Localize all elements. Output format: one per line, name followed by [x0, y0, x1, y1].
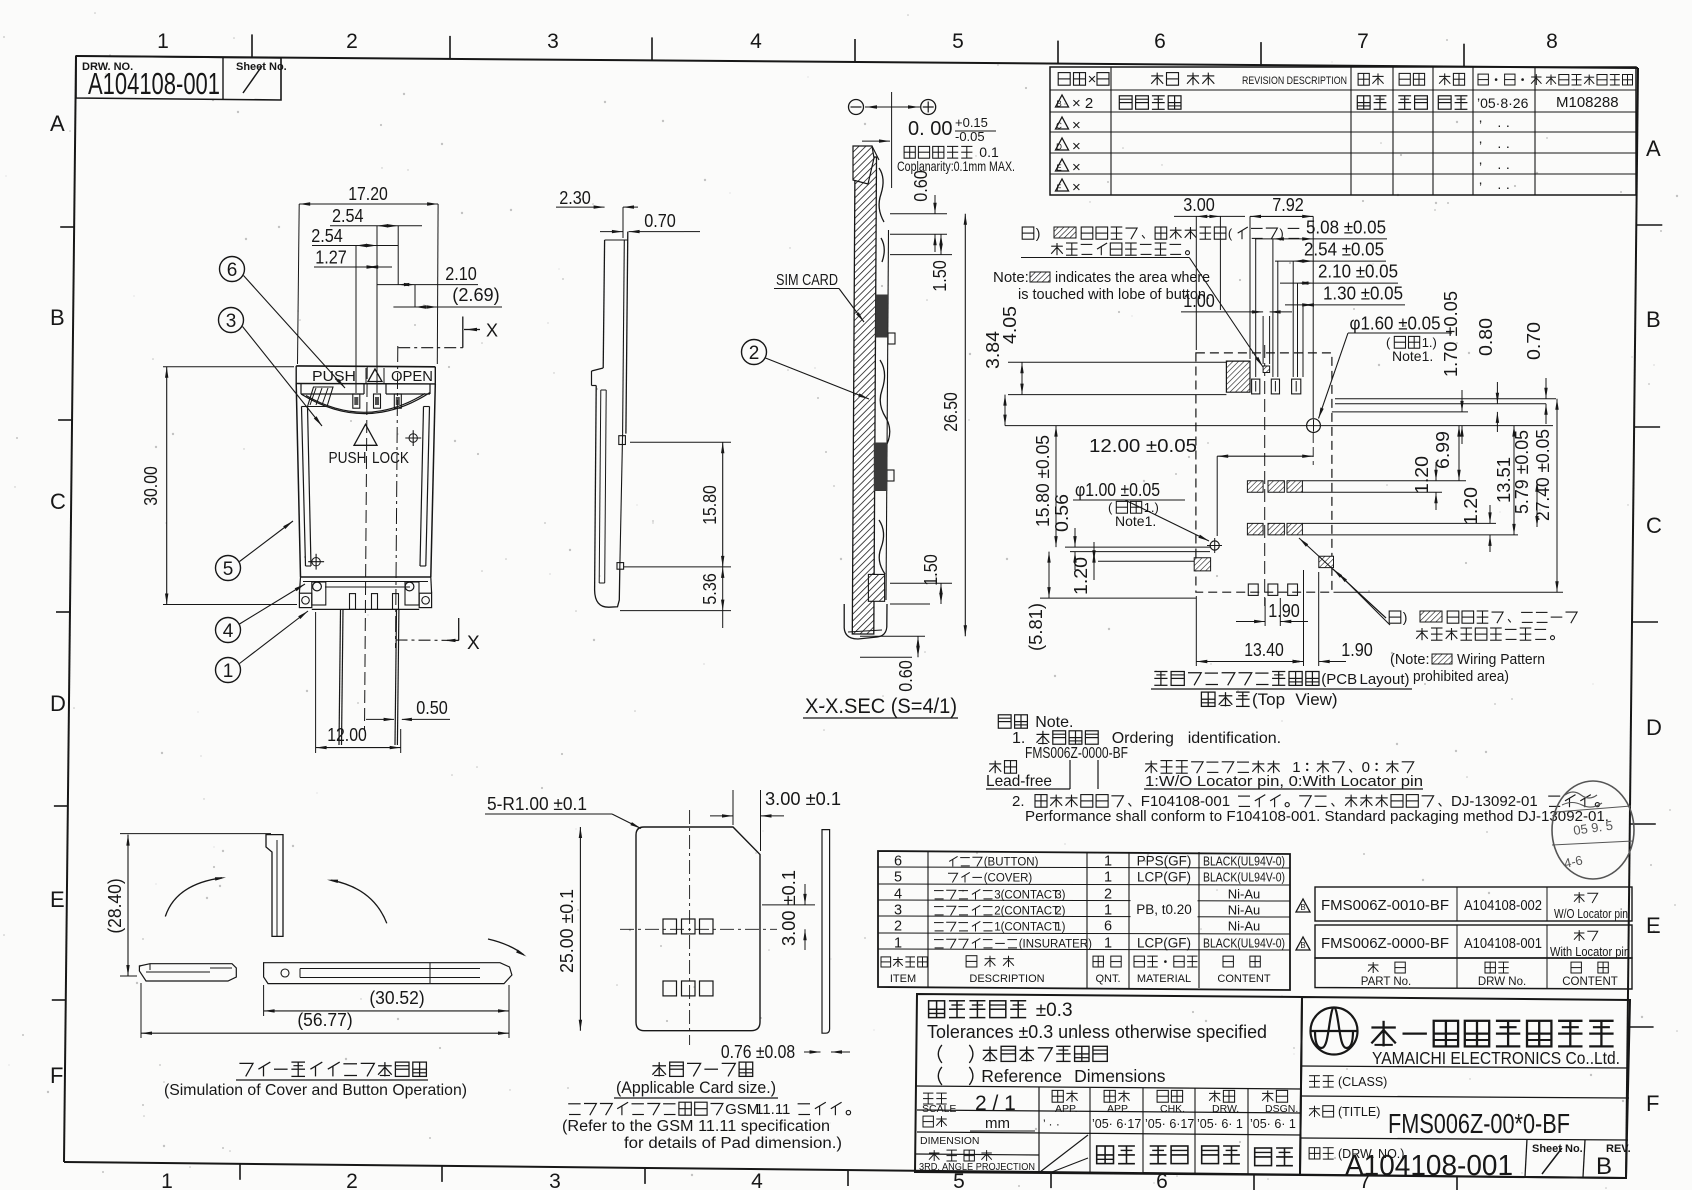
coplanarity note japanese: [904, 146, 915, 158]
svg-text:(TITLE): (TITLE): [1338, 1105, 1380, 1119]
parts row item 2: [894, 919, 1260, 935]
svg-text:5: 5: [952, 30, 964, 53]
pcb extension lines vertical: [1196, 216, 1313, 536]
prohibit note leaders: [1299, 538, 1390, 625]
dimension 2.54 pcb: [1275, 240, 1386, 263]
svg-text:2.54 ±0.05: 2.54 ±0.05: [1304, 240, 1384, 260]
dimension 0.80: [1476, 318, 1499, 432]
svg-text:2: 2: [749, 343, 760, 364]
dimension 5.36: [620, 567, 731, 628]
svg-text:A104108-001: A104108-001: [1345, 1150, 1513, 1182]
class row label: [1309, 1075, 1387, 1089]
svg-text:6: 6: [1104, 919, 1112, 935]
svg-text:· ·: · ·: [1497, 117, 1510, 133]
svg-text:’: ’: [1479, 138, 1482, 154]
svg-text:±0.3: ±0.3: [1036, 1000, 1073, 1021]
svg-text:F: F: [1646, 1091, 1659, 1116]
svg-text:2: 2: [1104, 887, 1112, 903]
svg-text:1.20: 1.20: [1412, 456, 1432, 494]
svg-text:2: 2: [346, 30, 358, 53]
svg-text:LCP(GF): LCP(GF): [1137, 936, 1191, 951]
dimension 0.76: [721, 1041, 850, 1062]
dimension 1.20 left: [1071, 542, 1096, 595]
svg-text:F: F: [50, 1063, 63, 1088]
pcb view subtitle top view: [1201, 692, 1215, 706]
svg-text:CHK.: CHK.: [1160, 1103, 1185, 1115]
svg-text:mm: mm: [985, 1115, 1010, 1132]
drawing number row: [1309, 1139, 1631, 1182]
approval dates: [1043, 1117, 1296, 1131]
svg-text:26.50: 26.50: [941, 392, 961, 432]
svg-text:0.60: 0.60: [911, 170, 931, 202]
svg-text:for details of Pad dimension.): for details of Pad dimension.): [624, 1135, 842, 1152]
hatch note top japanese: [1021, 225, 1299, 367]
svg-text:· ·: · ·: [1497, 179, 1510, 195]
dimension 2.54 second: [311, 226, 398, 393]
svg-text:(5.81): (5.81): [1026, 603, 1046, 651]
front view top bar PUSH OPEN: [296, 366, 435, 385]
dimension 1.27: [314, 248, 392, 269]
svg-text:C: C: [1646, 513, 1662, 538]
dimension 7.92 pcb: [1250, 195, 1313, 218]
dimension 0.60 top: [890, 170, 947, 252]
svg-text:1.90: 1.90: [1341, 640, 1373, 660]
drawing number box: [76, 56, 287, 101]
svg-text:0. 00: 0. 00: [908, 118, 952, 140]
simulation title japanese: [236, 1062, 428, 1080]
note heading: [998, 714, 1073, 731]
front view side rails: [296, 384, 435, 578]
svg-text:6: 6: [227, 260, 238, 281]
svg-text:DSGN.: DSGN.: [1265, 1103, 1298, 1115]
prohibit note japanese: [1389, 609, 1577, 640]
svg-text:Reference: Reference: [981, 1066, 1062, 1086]
svg-text:15.80 ±0.05: 15.80 ±0.05: [1033, 435, 1053, 527]
svg-text:(Note:: (Note:: [1390, 652, 1430, 668]
parts row item 5: [894, 870, 1285, 886]
svg-text:1.90: 1.90: [1268, 601, 1300, 621]
label phi 1.00: [1073, 480, 1209, 541]
svg-text:(: (: [1108, 500, 1113, 515]
svg-text:(BUTTON): (BUTTON): [984, 857, 1039, 869]
svg-text:REVISION DESCRIPTION: REVISION DESCRIPTION: [1242, 75, 1347, 87]
svg-text:B: B: [1646, 307, 1661, 332]
svg-text:): ): [1279, 226, 1283, 241]
dimension 12.00 legs: [316, 612, 401, 753]
dimension 1.70: [1441, 291, 1464, 444]
svg-text:Ni-Au: Ni-Au: [1228, 887, 1261, 902]
title block outline: [1300, 997, 1630, 1178]
svg-text:Note1.: Note1.: [1392, 348, 1433, 364]
company name english: [1372, 1048, 1620, 1068]
svg-text:3.00: 3.00: [1183, 195, 1215, 215]
pcb centerline horizontal through mount hole: [1005, 425, 1553, 427]
svg-text:indicates the area where: indicates the area where: [1055, 269, 1210, 286]
svg-text:FMS006Z-00*0-BF: FMS006Z-00*0-BF: [1388, 1108, 1570, 1139]
svg-text:X: X: [486, 321, 498, 341]
svg-text:): ): [1403, 609, 1408, 625]
material merged cell: [1131, 886, 1198, 932]
svg-text:1.: 1.: [1012, 730, 1025, 747]
prohibit note english: [1390, 652, 1545, 685]
svg-text:1: 1: [223, 661, 234, 682]
dimension 2.10 pcb: [1280, 262, 1398, 285]
card side view thin bar: [822, 830, 830, 1034]
svg-text:X-X.SEC (S=4/1): X-X.SEC (S=4/1): [805, 695, 957, 718]
svg-text:W/O Locator pin: W/O Locator pin: [1554, 907, 1628, 921]
pcb right extension lines: [1302, 399, 1563, 592]
pcb prohibited pads row 2: [1247, 523, 1302, 535]
svg-text:(Simulation of Cover and Butto: (Simulation of Cover and Button Operatio…: [164, 1082, 467, 1099]
svg-text:8: 8: [1546, 30, 1558, 53]
svg-text:D: D: [1646, 715, 1662, 740]
svg-text:A104108-001: A104108-001: [88, 66, 220, 101]
svg-text:(: (: [1386, 335, 1391, 350]
svg-text:With Locator pin: With Locator pin: [1550, 945, 1630, 959]
svg-text:A: A: [50, 111, 65, 136]
svg-text:(2.69): (2.69): [452, 285, 499, 305]
pcb bottom pads: [1248, 584, 1297, 595]
svg-text:MATERIAL: MATERIAL: [1137, 973, 1191, 985]
front view center dashed line: [365, 366, 368, 731]
dimension 0.50 leg: [366, 698, 450, 721]
svg-text:’05· 6·17: ’05· 6·17: [1092, 1117, 1141, 1131]
svg-text:0.60: 0.60: [896, 660, 916, 692]
dimension 1.30 pcb: [1285, 283, 1405, 306]
svg-text:(28.40): (28.40): [105, 878, 125, 933]
parts table header: [881, 956, 1271, 985]
dimension 1.90 bottom: [1236, 598, 1308, 626]
dimension 6.99: [1433, 426, 1461, 481]
svg-text:2: 2: [894, 919, 902, 935]
dimension 5.08: [1255, 217, 1387, 240]
Yamaichi logo: [1311, 1008, 1358, 1055]
svg-text:5.08 ±0.05: 5.08 ±0.05: [1306, 217, 1386, 237]
side view lower body: [595, 386, 626, 608]
card title japanese: [616, 1062, 776, 1097]
front view datum target top-right: [405, 430, 421, 446]
svg-text:LOCK: LOCK: [372, 450, 409, 467]
svg-text:×: ×: [1072, 117, 1081, 134]
zone ticks bottom: [240, 1164, 1457, 1192]
svg-text:FMS006Z-0000-BF: FMS006Z-0000-BF: [1321, 936, 1449, 952]
svg-text:SCALE: SCALE: [922, 1103, 956, 1115]
svg-text:(Top: (Top: [1252, 690, 1285, 709]
svg-text:Layout): Layout): [1360, 671, 1410, 688]
svg-text:Ni-Au: Ni-Au: [1228, 903, 1261, 918]
svg-text:3.84: 3.84: [983, 331, 1003, 369]
svg-text:5.79 ±0.05: 5.79 ±0.05: [1512, 430, 1532, 514]
svg-text:(Applicable Card size.): (Applicable Card size.): [616, 1078, 776, 1097]
svg-text:0.70: 0.70: [644, 211, 676, 231]
svg-text:27.40 ±0.05: 27.40 ±0.05: [1533, 429, 1553, 521]
dimension 0.56: [1052, 494, 1210, 570]
svg-text:DESCRIPTION: DESCRIPTION: [969, 973, 1044, 985]
svg-text:0.76 ±0.08: 0.76 ±0.08: [721, 1041, 795, 1062]
svg-text:PART No.: PART No.: [1361, 976, 1412, 988]
section insulator dark blocks: [874, 295, 888, 492]
title row: [1309, 1105, 1570, 1139]
svg-text:ITEM: ITEM: [890, 973, 916, 985]
front view contact pins bottom: [350, 594, 399, 610]
svg-text:SIM CARD: SIM CARD: [776, 272, 838, 289]
pcb small hatched pad: [1263, 366, 1270, 373]
svg-text:1): 1): [1055, 922, 1065, 934]
scale and approval table: [916, 1086, 1301, 1174]
front view button pins: [353, 394, 402, 408]
svg-text:2.: 2.: [1012, 793, 1025, 810]
svg-text:+0.15: +0.15: [955, 115, 988, 130]
dimension 1.00 pcb: [1181, 291, 1292, 314]
svg-text:(COVER): (COVER): [984, 873, 1033, 885]
svg-text:4: 4: [750, 30, 762, 53]
svg-text:3: 3: [549, 1170, 561, 1190]
svg-text:identification.: identification.: [1188, 730, 1281, 747]
svg-text:5: 5: [894, 870, 902, 886]
revision row 4: [1056, 159, 1511, 176]
svg-text:E: E: [1056, 164, 1061, 173]
svg-text:12.00 ±0.05: 12.00 ±0.05: [1089, 435, 1197, 456]
revision table: [1050, 67, 1636, 195]
svg-text:1: 1: [157, 30, 169, 53]
svg-text:’05· 6· 1: ’05· 6· 1: [1197, 1117, 1243, 1131]
dimension 26.50: [941, 214, 967, 636]
dimension 0.60 bottom: [860, 636, 925, 692]
dimension 2.54 first: [330, 206, 422, 393]
svg-text:FMS006Z-0000-BF: FMS006Z-0000-BF: [1025, 745, 1128, 762]
parts row item 4: [894, 887, 1260, 903]
card note gsm japanese: [568, 1103, 580, 1105]
pcb prohibited pad right: [1319, 556, 1334, 567]
zone numbers bottom: [161, 1170, 1371, 1193]
simulation arrow arc 1: [165, 877, 226, 916]
svg-text:1: 1: [1104, 870, 1112, 886]
svg-text:1.20: 1.20: [1071, 557, 1091, 595]
svg-text:B: B: [1300, 903, 1305, 912]
svg-text:(30.52): (30.52): [369, 988, 424, 1008]
svg-text:1.50: 1.50: [921, 554, 941, 586]
simulation closed cover left piece: [139, 964, 236, 981]
dimension 13.51: [1494, 426, 1516, 535]
svg-text:2.54: 2.54: [311, 226, 343, 246]
svg-text:Note:: Note:: [993, 269, 1029, 286]
svg-text:4: 4: [751, 1170, 763, 1190]
svg-text:3.00 ±0.1: 3.00 ±0.1: [779, 870, 799, 946]
svg-text:QNT.: QNT.: [1095, 973, 1120, 985]
svg-text:is touched with lobe of button: is touched with lobe of button.: [1018, 286, 1210, 303]
section marker X top: [398, 317, 498, 348]
svg-text:2): 2): [1055, 906, 1065, 918]
section marker X bottom: [396, 618, 481, 654]
svg-text:2.10: 2.10: [445, 264, 477, 284]
svg-text:PB, t0.20: PB, t0.20: [1136, 902, 1192, 917]
svg-text:F: F: [1057, 184, 1062, 193]
svg-text:LCP(GF): LCP(GF): [1137, 870, 1191, 885]
svg-text:prohibited area): prohibited area): [1413, 669, 1509, 685]
svg-text:C: C: [1056, 122, 1062, 131]
svg-text:· ·: · ·: [1497, 159, 1510, 175]
pcb outline dashed: [1196, 353, 1332, 592]
dimension 12.00 pcb: [1089, 435, 1313, 458]
svg-text:A104108-002: A104108-002: [1464, 898, 1542, 914]
svg-text:(: (: [1228, 226, 1233, 241]
dimension 1.90 right: [1276, 572, 1373, 666]
section bottom cap: [844, 574, 887, 639]
zone letters left: [50, 111, 66, 1088]
front view section dash-dot line: [396, 346, 398, 648]
svg-text:Note1.: Note1.: [1115, 513, 1156, 529]
approval headers: [1052, 1090, 1298, 1115]
svg-text:0.50: 0.50: [416, 698, 448, 718]
svg-text:Wiring Pattern: Wiring Pattern: [1457, 652, 1545, 668]
svg-text:’ · ·: ’ · ·: [1043, 1117, 1060, 1131]
revision row 5: [1056, 179, 1511, 196]
revision table header row: [1058, 71, 1632, 88]
svg-text:φ1.00 ±0.05: φ1.00 ±0.05: [1075, 480, 1160, 500]
svg-text:DIMENSION: DIMENSION: [920, 1135, 980, 1147]
svg-text:13.40: 13.40: [1244, 640, 1284, 660]
svg-text:’05·8·26: ’05·8·26: [1477, 95, 1529, 111]
part number row 1: [1296, 892, 1628, 921]
svg-text:(56.77): (56.77): [297, 1010, 352, 1030]
svg-text:Dimensions: Dimensions: [1074, 1066, 1166, 1086]
pcb contact pads top row: [1252, 379, 1301, 394]
svg-text:5: 5: [223, 559, 234, 580]
dimension 0.70: [600, 211, 700, 233]
svg-text:3): 3): [1055, 890, 1065, 902]
svg-text:0.80: 0.80: [1476, 318, 1496, 356]
svg-text:1.20: 1.20: [1461, 487, 1481, 525]
hatch note top english: [993, 269, 1210, 303]
svg-text:’05· 6· 1: ’05· 6· 1: [1250, 1117, 1296, 1131]
card centerlines: [620, 810, 777, 1045]
svg-text:15.80: 15.80: [700, 485, 720, 525]
parts row item 1: [894, 936, 1285, 952]
dimension 3.00 right card: [762, 870, 815, 950]
dimension 15.80 pcb: [1033, 426, 1058, 547]
svg-text:3(CONTACT: 3(CONTACT: [994, 890, 1059, 902]
simulation arrow arc 2: [327, 880, 387, 924]
svg-text:FMS006Z-0010-BF: FMS006Z-0010-BF: [1321, 898, 1449, 914]
dimension 25.00: [557, 827, 582, 1031]
svg-text:1.27: 1.27: [315, 248, 347, 268]
front view button shelf: [301, 384, 430, 414]
svg-text:E: E: [50, 887, 65, 912]
svg-text:YAMAICHI ELECTRONICS Co..Ltd.: YAMAICHI ELECTRONICS Co..Ltd.: [1372, 1048, 1620, 1068]
svg-text:Ni-Au: Ni-Au: [1228, 919, 1261, 934]
svg-text:APP.: APP.: [1107, 1103, 1130, 1115]
simulation cover open vertical piece: [266, 835, 283, 937]
svg-text:View): View): [1295, 690, 1337, 709]
pcb prohibited pad left: [1194, 558, 1210, 571]
svg-text:2(CONTACT: 2(CONTACT: [994, 906, 1059, 918]
svg-text:A104108-001: A104108-001: [1464, 936, 1542, 952]
dimension 1.20 first: [1412, 456, 1438, 510]
balloon 2: [742, 340, 870, 400]
svg-text:(INSURATER): (INSURATER): [1019, 939, 1092, 951]
svg-text:4.05: 4.05: [1000, 306, 1020, 344]
svg-text:M108288: M108288: [1556, 94, 1619, 111]
dimension 0.70 pcb: [1524, 322, 1548, 424]
svg-text:φ1.60 ±0.05: φ1.60 ±0.05: [1350, 314, 1441, 334]
approver names: [1097, 1146, 1293, 1166]
svg-text:1(CONTACT: 1(CONTACT: [994, 922, 1059, 934]
tolerance box: [915, 994, 1302, 1175]
svg-text:D: D: [1056, 143, 1062, 152]
front view PUSH LOCK marking: [329, 424, 410, 467]
note 1 ordering identification: [1012, 730, 1281, 762]
svg-text:PPS(GF): PPS(GF): [1137, 854, 1192, 869]
dimension 1.50 top: [890, 234, 952, 292]
svg-text:4: 4: [894, 887, 902, 903]
dimension 17.20: [298, 184, 439, 364]
svg-text:’: ’: [1479, 179, 1482, 195]
dimension (2.69) reference: [393, 285, 502, 309]
svg-text:17.20: 17.20: [348, 184, 388, 204]
zone ticks top: [252, 34, 1464, 66]
svg-text:7.92: 7.92: [1272, 195, 1304, 215]
svg-text:APP.: APP.: [1055, 1103, 1078, 1115]
svg-text:CONTENT: CONTENT: [1562, 976, 1618, 988]
svg-text:B: B: [1300, 941, 1305, 950]
svg-text:2 / 1: 2 / 1: [975, 1092, 1016, 1115]
svg-text:3RD. ANGLE PROJECTION: 3RD. ANGLE PROJECTION: [919, 1161, 1035, 1173]
svg-text:7: 7: [1357, 30, 1369, 53]
dimension 27.40: [1533, 399, 1559, 592]
dimension 5-R1.00: [485, 794, 641, 829]
svg-text:(Refer to the GSM 11.11 specif: (Refer to the GSM 11.11 specification: [562, 1118, 830, 1135]
simulation opened assembly right piece: [264, 963, 512, 984]
svg-text:6: 6: [1154, 30, 1166, 53]
svg-text:4: 4: [223, 621, 234, 642]
revision row 3: [1056, 138, 1511, 155]
svg-text:DRW No.: DRW No.: [1478, 976, 1526, 988]
front view base plate: [299, 577, 431, 609]
svg-text:B: B: [1056, 100, 1061, 109]
card outline: [636, 827, 760, 1031]
simulation arrow arc 3: [488, 939, 527, 957]
parts row item 3: [894, 903, 1260, 919]
svg-text:1.70 ±0.05: 1.70 ±0.05: [1441, 291, 1461, 377]
dimension 5.79: [1512, 430, 1539, 527]
svg-text:· ·: · ·: [1497, 138, 1510, 154]
zone letters right: [1646, 136, 1662, 1116]
parts row item 6: [894, 854, 1285, 870]
zone ticks left: [52, 227, 74, 1000]
label phi 1.60: [1319, 314, 1453, 419]
svg-text:5-R1.00 ±0.1: 5-R1.00 ±0.1: [487, 794, 587, 814]
dimension 3.00 chamfer: [710, 789, 841, 851]
projection symbol cell crossed: [1040, 1135, 1088, 1172]
svg-text:1: 1: [161, 1170, 173, 1190]
revision row 1: [1056, 94, 1619, 112]
dimension 2.10: [377, 264, 478, 307]
dimension 13.40: [1196, 570, 1303, 666]
tolerance 0.00 +0.15 -0.05: [862, 115, 996, 144]
dimension 3.84: [983, 331, 1007, 426]
svg-text:1: 1: [1104, 936, 1112, 952]
balloon 5: [216, 521, 294, 581]
svg-text:3: 3: [894, 903, 902, 919]
part number header: [1361, 962, 1618, 988]
dimension (30.52): [264, 985, 509, 1016]
svg-text:×: ×: [1072, 159, 1081, 176]
balloon 1: [216, 611, 309, 683]
dimension (56.77): [141, 983, 509, 1038]
section contact springs: [879, 168, 895, 600]
svg-text:30.00: 30.00: [141, 466, 161, 506]
svg-text:2.54: 2.54: [332, 206, 364, 226]
